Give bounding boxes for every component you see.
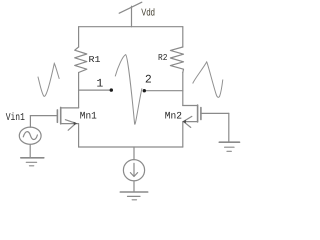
svg-text:1: 1 xyxy=(96,78,103,91)
svg-text:Vdd: Vdd xyxy=(141,7,155,18)
transistor Mn1 gate bar xyxy=(56,110,58,122)
wire Vin1 riser xyxy=(29,116,31,128)
transistor Mn1 channel bar xyxy=(60,107,62,123)
transistor Mn2 gate bar xyxy=(200,108,202,120)
resistor R1 xyxy=(75,47,87,73)
wire right branch mid xyxy=(182,73,184,106)
svg-text:R1: R1 xyxy=(89,55,101,65)
signal sine wave center xyxy=(115,55,142,125)
power symbol Vdd slash xyxy=(119,2,142,13)
svg-text:Vin1: Vin1 xyxy=(6,112,25,124)
svg-text:2: 2 xyxy=(145,74,152,87)
wire left branch mid xyxy=(78,73,80,108)
wire node 2 stub xyxy=(144,90,183,92)
svg-text:R2: R2 xyxy=(158,53,168,63)
wire left branch upper xyxy=(78,27,80,47)
wire right branch upper xyxy=(182,27,184,47)
wire Mn2 gate lead xyxy=(201,112,229,114)
node 1 dot xyxy=(110,88,113,91)
transistor Mn1 arrow tip xyxy=(74,122,78,126)
transistor Mn2 channel bar xyxy=(197,105,199,122)
wire current source tap xyxy=(133,147,135,160)
wire top rail Vdd xyxy=(79,26,183,28)
wire current source to ground xyxy=(133,181,135,192)
wire Vdd tap xyxy=(131,6,133,27)
wire Vin1 to ground xyxy=(29,144,31,157)
source I1 current source circle xyxy=(123,160,144,181)
wire node 1 stub xyxy=(79,89,111,91)
transistor Mn2 source arrow xyxy=(184,116,192,127)
wire Mn2 gate to ground xyxy=(228,113,230,142)
svg-text:Mn1: Mn1 xyxy=(80,111,97,122)
signal sine wave right xyxy=(193,62,223,97)
ground right xyxy=(219,141,239,143)
transistor Mn2 arrow tip xyxy=(182,120,186,124)
transistor Mn2 drain lead xyxy=(183,105,198,107)
transistor Q Mn1 drain lead xyxy=(61,107,79,109)
svg-text:Mn2: Mn2 xyxy=(165,111,182,122)
transistor Mn2 source lead xyxy=(183,122,198,147)
node 2 dot xyxy=(143,89,146,92)
resistor R2 xyxy=(170,47,183,73)
ground Vin1 xyxy=(21,157,44,159)
current source arrow xyxy=(130,163,137,176)
source V Vin1 circle xyxy=(19,127,41,144)
transistor Mn1 source arrow xyxy=(65,120,75,131)
wire Mn1 gate lead xyxy=(30,115,57,117)
wire bottom source rail xyxy=(79,146,183,148)
signal sine wave left xyxy=(38,63,59,96)
transistor Mn1 source lead xyxy=(61,124,79,147)
ground bottom xyxy=(120,191,147,193)
source Vin1 sine mark xyxy=(23,132,37,140)
